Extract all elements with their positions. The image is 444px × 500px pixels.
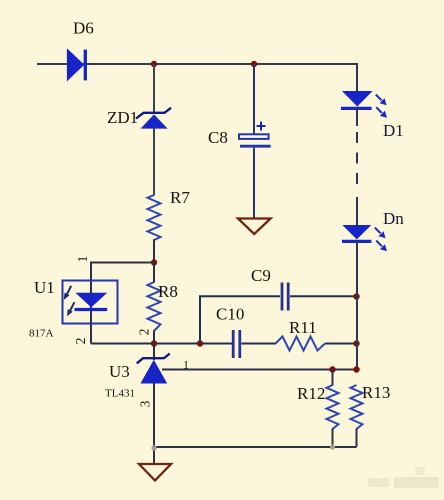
watermark — [368, 467, 439, 488]
node junction mid rail at R8 — [151, 340, 157, 346]
wire U3 cathode lead — [153, 344, 155, 361]
wire C9 right lead — [290, 295, 357, 297]
LED D1 — [341, 91, 373, 108]
LED D1 arrow b — [376, 107, 387, 118]
node junction mid rail at C9 branch — [197, 340, 203, 346]
capacitor C8 — [239, 134, 271, 146]
optocoupler U1 emit arrow a — [64, 286, 71, 300]
svg-text:U1: U1 — [34, 278, 55, 297]
svg-text:U3: U3 — [109, 362, 130, 381]
svg-text:C10: C10 — [216, 305, 244, 324]
resistor R7 — [148, 195, 161, 240]
node junction top-mid — [251, 61, 257, 67]
resistor R8 — [148, 282, 161, 331]
svg-text:R11: R11 — [289, 318, 317, 337]
svg-text:1: 1 — [75, 256, 90, 263]
capacitor C10 — [233, 330, 240, 358]
wire C9 left lead — [199, 295, 280, 297]
wire top rail — [37, 63, 357, 65]
node junction top-left — [151, 61, 157, 67]
svg-text:3: 3 — [138, 400, 153, 407]
node junction R7/R8/U1 — [151, 259, 157, 265]
wire dashed LED chain — [356, 132, 358, 184]
svg-text:ZD1: ZD1 — [107, 108, 138, 127]
svg-text:C8: C8 — [208, 128, 228, 147]
wire node to U1 pin1 — [91, 263, 154, 344]
svg-text:TL431: TL431 — [105, 388, 135, 400]
zener diode ZD1 — [136, 108, 171, 129]
wire right column Dn to bottom — [356, 241, 358, 370]
wire U3 ref pin — [162, 369, 357, 371]
LED Dn — [342, 225, 371, 241]
LED Dn arrow a — [375, 228, 386, 239]
wire right column upper — [356, 63, 358, 92]
ground main — [139, 464, 171, 481]
wire R8 bottom lead — [153, 331, 155, 344]
shunt regulator U3 — [137, 354, 170, 384]
node junction right column at C9 — [353, 293, 359, 299]
wire dashed to Dn — [356, 197, 358, 226]
svg-text:2: 2 — [137, 329, 152, 336]
wire bottom rail — [154, 446, 357, 448]
LED D1 arrow a — [376, 95, 387, 106]
wire R12 bottom lead — [332, 429, 334, 448]
wire R11 right lead — [325, 343, 357, 345]
capacitor C9 — [282, 283, 288, 311]
node gray dot R12 bottom — [330, 444, 335, 449]
wire C8 bottom lead — [253, 148, 255, 218]
resistor R11 — [276, 337, 326, 351]
resistor R13 — [351, 385, 363, 429]
svg-text:R12: R12 — [297, 384, 325, 403]
svg-text:D6: D6 — [73, 19, 94, 38]
wire C9 branch riser — [199, 296, 201, 343]
LED Dn arrow b — [376, 241, 387, 252]
wire R8 top lead — [153, 263, 155, 283]
svg-text:D1: D1 — [383, 121, 404, 140]
wire U3 anode to ground — [153, 383, 155, 465]
wire R13 bottom lead — [356, 429, 358, 448]
node junction ref/R13 — [353, 366, 359, 372]
svg-text:R7: R7 — [170, 188, 190, 207]
diode D6 — [67, 49, 85, 80]
optocoupler U1 emit arrow b — [67, 302, 75, 316]
node junction ref/R12 — [329, 366, 335, 372]
wire mid rail — [91, 343, 233, 345]
wire ZD1 top lead — [153, 64, 155, 113]
svg-text:2: 2 — [73, 338, 88, 345]
svg-text:Dn: Dn — [383, 209, 404, 228]
svg-text:R13: R13 — [362, 383, 390, 402]
resistor R12 — [327, 385, 339, 429]
optocoupler U1 box — [63, 281, 118, 324]
wire C8 top lead — [253, 64, 255, 135]
wire D1 to dashed — [356, 108, 358, 126]
capacitor C8 plus sign — [257, 122, 266, 131]
wire R7 to node — [153, 240, 155, 263]
node junction right column at R11 — [353, 340, 359, 346]
wire R12 top lead — [332, 370, 334, 386]
wire ZD1 to R7 — [153, 128, 155, 196]
optocoupler U1 LED — [75, 293, 108, 310]
svg-text:817A: 817A — [29, 328, 54, 340]
svg-text:C9: C9 — [251, 266, 271, 285]
node gray dot U3 ground — [151, 445, 156, 450]
svg-text:R8: R8 — [158, 282, 178, 301]
wire C10 to R11 — [242, 343, 277, 345]
ground C8 — [238, 219, 271, 235]
